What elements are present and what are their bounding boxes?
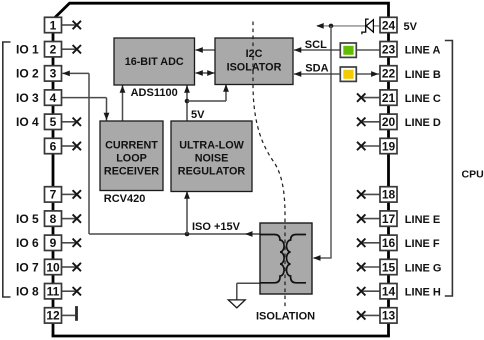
arrowhead into ADC (bidir) bbox=[195, 70, 203, 76]
LED indicator green (LINE A / SCL) bbox=[340, 43, 356, 57]
pin 23 bbox=[380, 42, 397, 57]
pin 9 bbox=[45, 235, 62, 250]
no-connect X pin 2 bbox=[73, 45, 81, 53]
arrowhead into transformer right edge bbox=[313, 255, 321, 261]
svg-text:CPU: CPU bbox=[462, 169, 484, 181]
pin 19 bbox=[380, 138, 397, 153]
svg-text:IO 7: IO 7 bbox=[16, 260, 39, 274]
arrowhead into ADC right edge bbox=[195, 47, 203, 53]
arrowhead into isolator (bidir) bbox=[207, 70, 215, 76]
pin 17 bbox=[380, 211, 397, 226]
svg-text:ISO +15V: ISO +15V bbox=[192, 221, 241, 233]
wire ISO +15V rail horizontal bbox=[89, 233, 261, 235]
svg-text:3: 3 bbox=[50, 67, 57, 81]
no-connect X pin 18 bbox=[357, 190, 365, 198]
junction dot ISO rail at regulator branch bbox=[185, 232, 190, 237]
no-connect stub pin 1 bbox=[62, 24, 77, 26]
no-connect X pin 8 bbox=[73, 214, 81, 222]
no-connect X pin 17 bbox=[357, 214, 365, 222]
device outline bottom edge bbox=[52, 335, 390, 338]
svg-text:ISOLATOR: ISOLATOR bbox=[227, 61, 282, 73]
wire ISO rail vertical to pin 3 level bbox=[88, 73, 90, 234]
svg-text:9: 9 bbox=[50, 236, 57, 250]
pin 21 bbox=[380, 90, 397, 105]
svg-text:LINE A: LINE A bbox=[405, 45, 441, 57]
pin 8 bbox=[45, 211, 62, 226]
no-connect X pin 5 bbox=[73, 118, 81, 126]
pin 22 bbox=[380, 66, 397, 81]
svg-text:IO 2: IO 2 bbox=[16, 67, 39, 81]
no-connect X pin 6 bbox=[73, 142, 81, 150]
no-connect X pin 10 bbox=[73, 263, 81, 271]
svg-text:5V: 5V bbox=[404, 21, 418, 33]
svg-text:IO 5: IO 5 bbox=[16, 212, 39, 226]
svg-text:16: 16 bbox=[382, 236, 396, 250]
pin 10 bbox=[45, 259, 62, 274]
wire branch up into regulator bottom bbox=[186, 192, 188, 235]
svg-text:13: 13 bbox=[382, 309, 396, 323]
wire 5V net vertical drop to transformer bbox=[330, 26, 332, 258]
wire 5V branch to isolator bbox=[187, 100, 226, 102]
no-connect stub pin 16 bbox=[361, 242, 380, 244]
no-connect X pin 9 bbox=[73, 239, 81, 247]
pin 4 bbox=[45, 90, 62, 105]
wire ADC-isolator bidirectional (bottom) bbox=[196, 72, 215, 74]
svg-text:REGULATOR: REGULATOR bbox=[178, 165, 246, 177]
no-connect stub pin 7 bbox=[62, 193, 77, 195]
svg-text:5: 5 bbox=[50, 115, 57, 129]
pin 20 bbox=[380, 114, 397, 129]
svg-text:IO 3: IO 3 bbox=[16, 91, 39, 105]
wire 5V net: pin24 to diode bbox=[373, 25, 380, 27]
svg-text:SCL: SCL bbox=[305, 39, 327, 51]
block U3 CURRENT LOOP RECEIVER (RCV420) bbox=[100, 121, 163, 191]
no-connect X pin 20 bbox=[357, 118, 365, 126]
no-connect X pin 15 bbox=[357, 263, 365, 271]
wire 5V net: diode to left arrow end bbox=[317, 25, 366, 27]
no-connect stub pin 14 bbox=[361, 290, 380, 292]
pin 12 termination stub bbox=[62, 314, 76, 316]
wire isolator to ADC (top) bbox=[196, 49, 216, 51]
device outline top edge with chamfer bbox=[54, 3, 388, 18]
svg-text:LINE H: LINE H bbox=[405, 287, 441, 299]
svg-text:18: 18 bbox=[382, 188, 396, 202]
wire SDA: isolator to pin22 bbox=[294, 73, 379, 75]
svg-text:LINE D: LINE D bbox=[405, 117, 441, 129]
no-connect X pin 16 bbox=[357, 239, 365, 247]
wire into transformer right side bbox=[314, 257, 332, 259]
pin 14 bbox=[380, 284, 397, 299]
wire 5V branch rise into isolator bbox=[225, 85, 227, 101]
no-connect stub pin 19 bbox=[361, 145, 380, 147]
pin 6 bbox=[45, 138, 62, 153]
wire SCL: pin23 to I2C isolator bbox=[294, 49, 381, 51]
arrowhead 5V net pointing left bbox=[316, 23, 324, 29]
block U4 ULTRA-LOW NOISE REGULATOR bbox=[171, 121, 252, 192]
wire current-loop-receiver output to ADC bbox=[122, 86, 124, 122]
no-connect stub pin 18 bbox=[361, 193, 380, 195]
svg-text:14: 14 bbox=[382, 285, 396, 299]
svg-text:8: 8 bbox=[50, 212, 57, 226]
pin 13 bbox=[380, 308, 397, 323]
bracket grouping IO 1..IO 8 bbox=[3, 42, 11, 297]
no-connect X pin 21 bbox=[357, 93, 365, 101]
pin 3 bbox=[45, 66, 62, 81]
block U1 16-BIT ADC (ADS1100) bbox=[114, 38, 195, 85]
arrowhead SDA into pin 22 bbox=[371, 71, 379, 77]
svg-text:RECEIVER: RECEIVER bbox=[104, 165, 159, 177]
pin 24 bbox=[380, 17, 397, 32]
arrowhead into pin 3 bbox=[62, 71, 70, 77]
svg-text:15: 15 bbox=[382, 260, 396, 274]
svg-text:1: 1 bbox=[50, 18, 57, 32]
svg-text:2: 2 bbox=[50, 43, 57, 57]
pin 12 termination bar bbox=[75, 306, 78, 321]
svg-text:4: 4 bbox=[50, 91, 57, 105]
pin 7 bbox=[45, 187, 62, 202]
no-connect stub pin 10 bbox=[62, 266, 77, 268]
no-connect X pin 7 bbox=[73, 190, 81, 198]
pin 2 bbox=[45, 42, 62, 57]
svg-text:LINE B: LINE B bbox=[405, 69, 441, 81]
no-connect X pin 19 bbox=[357, 142, 365, 150]
no-connect stub pin 20 bbox=[361, 121, 380, 123]
svg-text:7: 7 bbox=[50, 188, 57, 202]
svg-text:5V: 5V bbox=[191, 109, 205, 121]
wire transformer secondary low side to chassis bbox=[237, 282, 261, 284]
pin 16 bbox=[380, 235, 397, 250]
pin 5 bbox=[45, 114, 62, 129]
pin 18 bbox=[380, 187, 397, 202]
svg-text:I2C: I2C bbox=[246, 48, 263, 60]
svg-text:IO 1: IO 1 bbox=[16, 43, 39, 57]
svg-text:23: 23 bbox=[382, 43, 396, 57]
wire pin4 to current loop receiver bbox=[62, 97, 107, 99]
no-connect stub pin 11 bbox=[62, 290, 77, 292]
arrowhead into regulator bottom bbox=[184, 191, 190, 199]
svg-text:19: 19 bbox=[382, 139, 396, 153]
LED indicator yellow (LINE B / SDA) bbox=[340, 67, 356, 81]
no-connect stub pin 9 bbox=[62, 242, 77, 244]
svg-text:11: 11 bbox=[47, 285, 60, 299]
wire into pin 3 bbox=[63, 72, 90, 74]
arrowhead on ISO rail pointing left near transformer bbox=[245, 231, 253, 237]
wire regulator 5V output up to ADC bbox=[186, 86, 188, 122]
svg-text:6: 6 bbox=[50, 139, 57, 153]
arrowhead 5V into isolator bottom bbox=[223, 84, 229, 92]
pin 15 bbox=[380, 259, 397, 274]
pin 12 bbox=[45, 308, 62, 323]
svg-text:ADS1100: ADS1100 bbox=[131, 87, 178, 99]
no-connect stub pin 17 bbox=[361, 218, 380, 220]
arrowhead SDA into isolator bbox=[294, 71, 302, 77]
svg-text:ULTRA-LOW: ULTRA-LOW bbox=[179, 139, 244, 151]
svg-text:20: 20 bbox=[382, 115, 396, 129]
no-connect stub pin 2 bbox=[62, 48, 77, 50]
svg-text:LOOP: LOOP bbox=[116, 152, 147, 164]
svg-text:RCV420: RCV420 bbox=[104, 193, 146, 205]
svg-text:17: 17 bbox=[382, 212, 396, 226]
svg-text:IO 4: IO 4 bbox=[16, 115, 39, 129]
svg-text:SDA: SDA bbox=[305, 63, 328, 75]
svg-text:LINE F: LINE F bbox=[405, 238, 440, 250]
arrowhead into receiver top bbox=[104, 113, 110, 121]
isolation barrier dashed line bbox=[253, 22, 285, 308]
svg-text:21: 21 bbox=[382, 91, 396, 105]
pin 11 bbox=[45, 284, 62, 299]
no-connect X pin 13 bbox=[357, 311, 365, 319]
no-connect X pin 11 bbox=[73, 287, 81, 295]
no-connect X pin 14 bbox=[357, 287, 365, 295]
svg-text:IO 8: IO 8 bbox=[16, 285, 39, 299]
chassis ground symbol (open arrow) bbox=[228, 300, 245, 308]
svg-text:IO 6: IO 6 bbox=[16, 236, 39, 250]
svg-text:LINE G: LINE G bbox=[405, 262, 442, 274]
arrowhead SCL into isolator bbox=[294, 47, 302, 53]
pin 1 bbox=[45, 17, 62, 32]
device outline left edge (pin column spine) bbox=[52, 18, 55, 336]
svg-text:12: 12 bbox=[46, 309, 60, 323]
block U2 I2C ISOLATOR bbox=[215, 38, 293, 85]
no-connect stub pin 21 bbox=[361, 97, 380, 99]
svg-text:22: 22 bbox=[382, 67, 396, 81]
device outline right edge (pin column spine) bbox=[387, 18, 390, 336]
bracket grouping CPU lines bbox=[445, 41, 453, 297]
transformer T1 secondary winding (right) bbox=[287, 235, 307, 283]
diode D1 (zener) at pin 24 bbox=[366, 20, 373, 32]
no-connect stub pin 13 bbox=[361, 314, 380, 316]
junction dot 5V branch bbox=[185, 99, 190, 104]
svg-text:CURRENT: CURRENT bbox=[105, 139, 158, 151]
svg-text:ISOLATION: ISOLATION bbox=[256, 311, 315, 323]
no-connect stub pin 6 bbox=[62, 145, 77, 147]
arrowhead into ADC bottom bbox=[120, 85, 126, 93]
transformer T1 box bbox=[260, 223, 312, 294]
no-connect stub pin 8 bbox=[62, 218, 77, 220]
svg-text:LINE C: LINE C bbox=[405, 93, 441, 105]
no-connect stub pin 15 bbox=[361, 266, 380, 268]
svg-text:10: 10 bbox=[46, 260, 60, 274]
arrowhead 5V into ADC bottom bbox=[184, 85, 190, 93]
junction dot 5V net bbox=[329, 24, 334, 29]
svg-text:24: 24 bbox=[382, 18, 396, 32]
no-connect X pin 1 bbox=[73, 21, 81, 29]
transformer T1 primary winding (left) bbox=[260, 235, 284, 283]
svg-text:16-BIT ADC: 16-BIT ADC bbox=[125, 56, 184, 68]
svg-text:LINE E: LINE E bbox=[405, 214, 440, 226]
svg-text:NOISE: NOISE bbox=[195, 152, 229, 164]
no-connect stub pin 5 bbox=[62, 121, 77, 123]
